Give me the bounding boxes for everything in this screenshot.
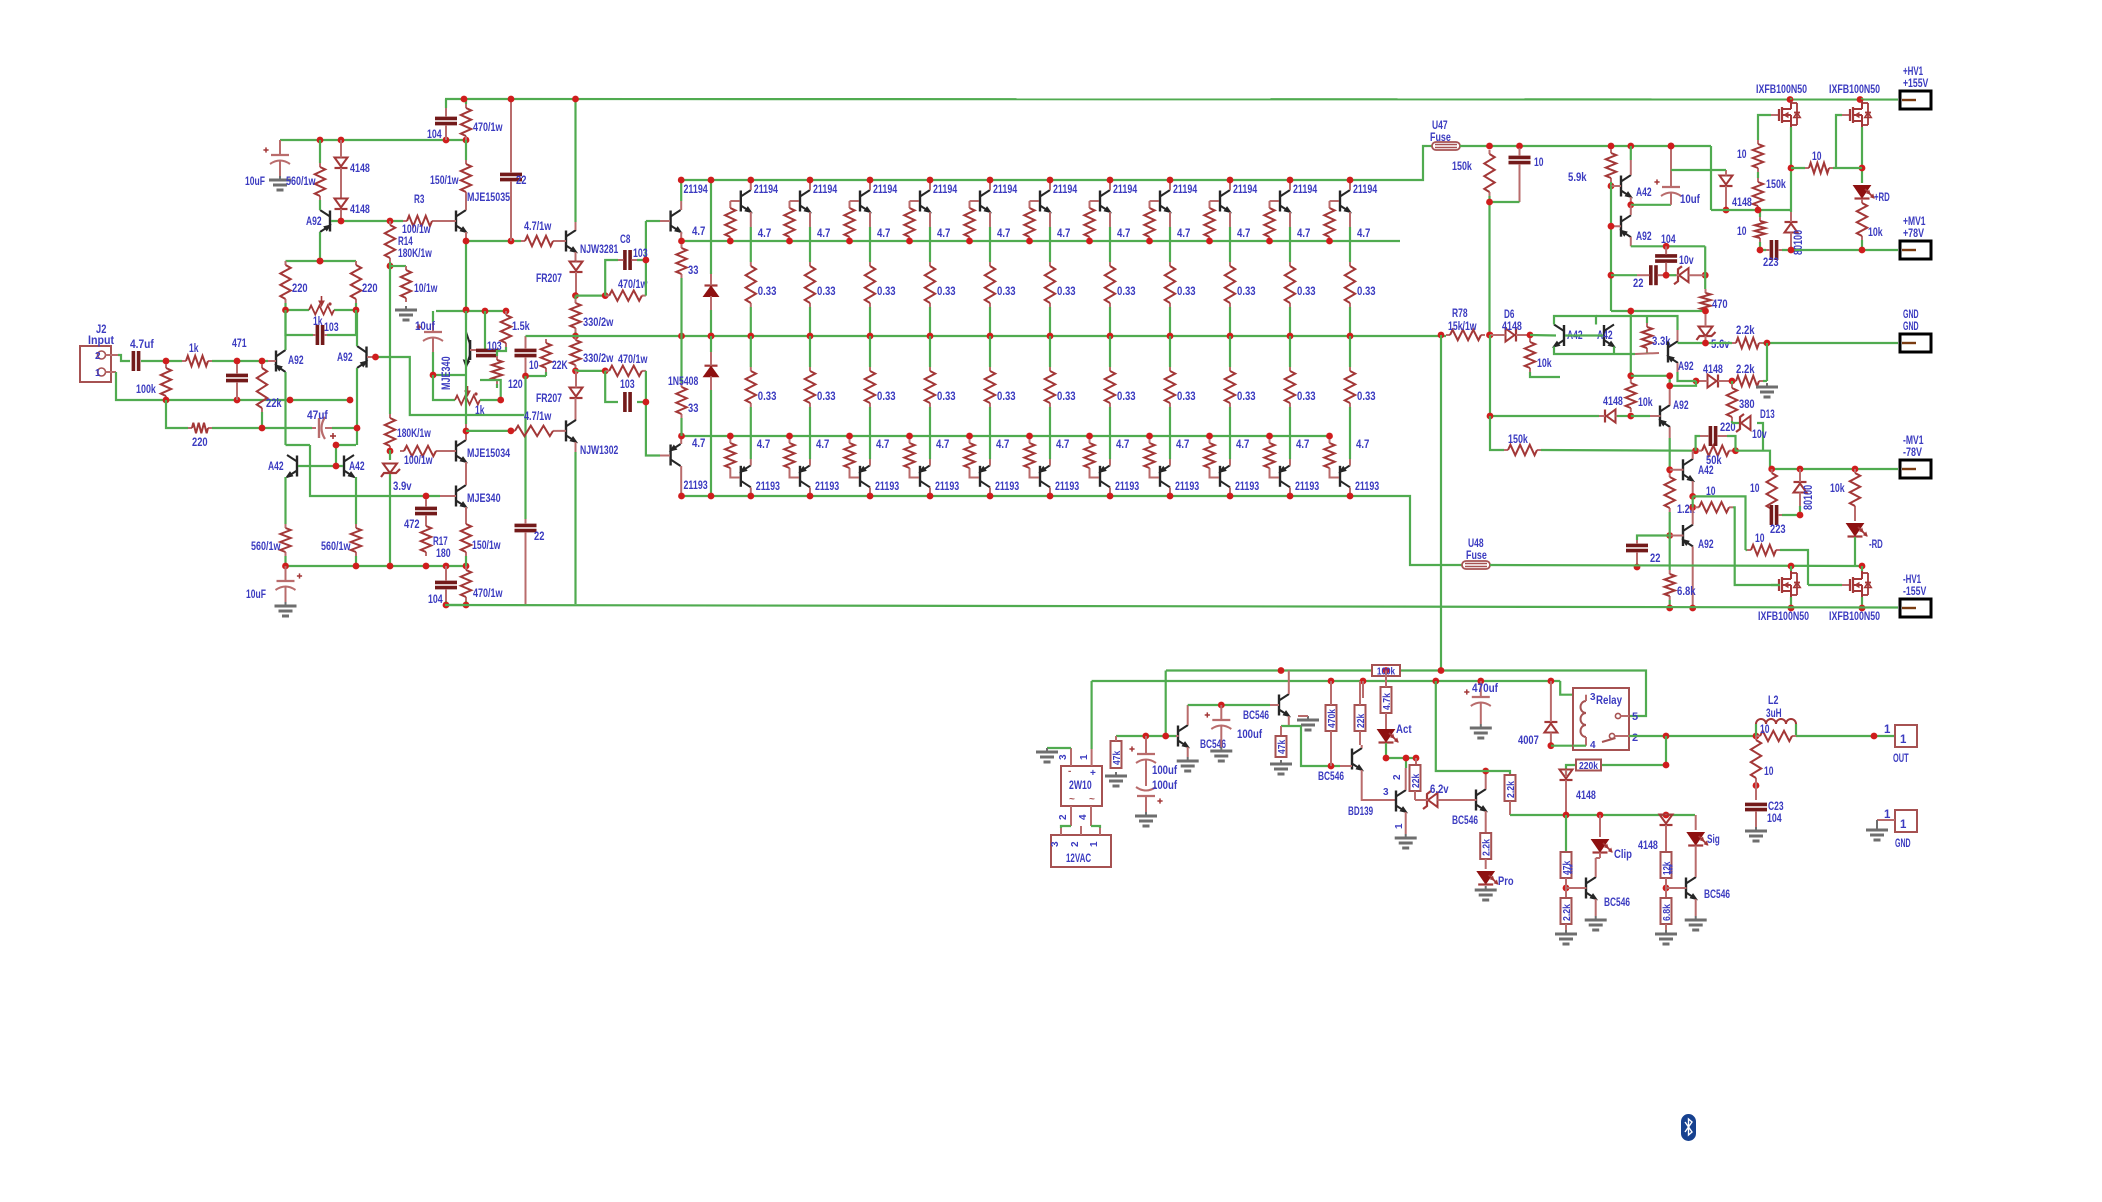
transistor 21194 21194 [1100, 184, 1138, 213]
svg-text:10: 10 [1760, 724, 1770, 736]
leads BC546 3 [1340, 745, 1397, 800]
polarized capacitor 10uF 10uF [246, 566, 302, 602]
wire relay pin4 bottom [1573, 745, 1586, 747]
node collector rail [1287, 177, 1294, 184]
resistor 330/2w 330/2w [570, 299, 613, 332]
resistor 4.7 [904, 439, 914, 472]
resistor 22k 22k [257, 364, 282, 412]
label 0.33 lower [937, 391, 956, 403]
wire 0.33 to collector [1109, 407, 1111, 459]
resistor 4.7/1w 4.7/1w [521, 221, 557, 246]
resistor 560/1w 560/1w [251, 524, 291, 556]
resistor 0.33 [865, 262, 875, 307]
lead 21193 [1169, 459, 1171, 496]
label 0.33 [1177, 286, 1196, 298]
wire A42 pair links [1554, 316, 1614, 354]
transistor A42 A42 [268, 455, 297, 478]
resistor 10 10 [1737, 140, 1763, 172]
svg-text:~: ~ [1069, 794, 1075, 805]
resistor 4.7 [725, 204, 735, 241]
transistor 21193 21193 [1039, 465, 1079, 493]
wire 470 bottom row [1611, 311, 1706, 376]
wire 4.7 base to bar [790, 200, 800, 202]
transistor A92 A92 [1620, 215, 1651, 243]
svg-text:12VAC: 12VAC [1066, 853, 1091, 865]
wire pot right [480, 399, 501, 401]
leads BC546 mid [1176, 705, 1188, 757]
resistor 2.2k 2.2k [1480, 833, 1492, 859]
leads sig led [1695, 815, 1697, 858]
node base bus lower [846, 433, 853, 440]
wire 104 top [446, 99, 466, 108]
node collector rail [1347, 177, 1354, 184]
resistor 1.2k [1665, 473, 1675, 512]
svg-text:Clip: Clip [1614, 849, 1632, 861]
node out terminal [1871, 733, 1878, 740]
bridge rectifier 2W10 [1058, 748, 1102, 826]
svg-text:1: 1 [1900, 819, 1907, 831]
capacitor 103 103 [476, 341, 502, 356]
svg-text:***: *** [1568, 864, 1579, 874]
wire 47uf to fb node [332, 427, 356, 429]
diode 1N4007 4007 [1518, 681, 1557, 747]
wire row 210 [1711, 210, 1791, 217]
wire mid to 0.33 lower [929, 336, 931, 367]
leads A92 [1611, 205, 1631, 246]
svg-text:0.33: 0.33 [1177, 391, 1196, 403]
resistor 12k 12k [1661, 852, 1680, 878]
svg-text:4.7: 4.7 [758, 228, 771, 240]
leads A92 gnd row [1635, 330, 1678, 372]
capacitor 104 104 [427, 108, 457, 141]
svg-text:4148: 4148 [1576, 790, 1596, 802]
node 4148 [1668, 143, 1730, 214]
wire 0.33 to collector [929, 407, 931, 459]
svg-text:10: 10 [1737, 149, 1747, 161]
svg-text:10uf: 10uf [1680, 194, 1700, 206]
resistor 100k 100k [136, 364, 171, 400]
svg-text:-RD: -RD [1869, 539, 1883, 551]
svg-text:A92: A92 [1673, 400, 1689, 412]
transistor BC546 BC546 [1586, 877, 1630, 909]
svg-text:-: - [1068, 766, 1071, 777]
label 0.33 lower [1057, 391, 1076, 403]
svg-text:0.33: 0.33 [1117, 391, 1136, 403]
svg-text:0.33: 0.33 [1297, 391, 1316, 403]
node base bus [1206, 238, 1213, 245]
LED Act Act [1379, 724, 1412, 743]
capacitor 220 220 [1700, 422, 1736, 446]
svg-text:150/1w: 150/1w [472, 540, 501, 552]
ground [1210, 747, 1232, 761]
svg-text:10k: 10k [1537, 358, 1552, 370]
svg-text:10: 10 [1534, 157, 1544, 169]
svg-text:2: 2 [1392, 774, 1403, 780]
node mid rail [1047, 333, 1054, 340]
transistor 21193 21193 [919, 465, 959, 493]
wire 0.33 to mid [1169, 307, 1171, 336]
node mid rail [867, 333, 874, 340]
wire mid to 0.33 lower [869, 336, 871, 367]
label 0.33 [817, 286, 836, 298]
wire mid output rail [526, 335, 1447, 337]
node [1663, 272, 1670, 279]
terminal -HV1 [1900, 574, 1931, 617]
node pot out [497, 397, 504, 404]
resistor 380 380 [1727, 384, 1755, 421]
wire cap to R 1k [141, 360, 182, 362]
node tail rail [282, 563, 469, 570]
resistor 0.33 [985, 367, 995, 407]
label 0.33 lower [758, 391, 777, 403]
node collector rail [1047, 177, 1054, 184]
svg-text:22: 22 [1633, 278, 1643, 290]
node 5.9k [1608, 183, 1615, 190]
wire 0.33 to collector [750, 407, 752, 459]
wire 22 hang [1637, 536, 1670, 541]
svg-text:A42: A42 [1636, 187, 1652, 199]
wire 4007 to relay [1551, 745, 1573, 747]
node A42 [333, 442, 430, 500]
node Q1 lower [678, 433, 685, 500]
polarized capacitor 10uF 10uF [245, 140, 290, 188]
svg-text:220: 220 [362, 283, 378, 295]
transistor A92 A92 [306, 210, 331, 232]
ground [1685, 916, 1707, 930]
lead 21193 [869, 459, 871, 496]
wire 1k to Q base [212, 360, 268, 362]
svg-text:OUT: OUT [1893, 753, 1909, 765]
svg-text:-155V: -155V [1903, 586, 1927, 598]
wire mid to 0.33 lower [1349, 336, 1351, 367]
svg-text:R78: R78 [1452, 308, 1468, 320]
svg-text:10v: 10v [1752, 429, 1767, 441]
wire diode to mid [710, 310, 712, 336]
node base bus lower [1326, 433, 1333, 440]
potentiometer 1k 1k [455, 386, 485, 417]
svg-text:104: 104 [1767, 813, 1782, 825]
resistor 10 10 [1747, 533, 1780, 555]
resistor 4.7/1w 4.7/1w [511, 411, 557, 436]
fuse U47 [1432, 142, 1460, 150]
svg-text:0.33: 0.33 [1117, 286, 1136, 298]
wire -MV1 row [1770, 468, 1898, 470]
wire to A42 pair [1530, 334, 1556, 337]
wire emitter [929, 227, 931, 262]
svg-text:22K: 22K [552, 360, 568, 372]
resistor 4.7 [1204, 204, 1214, 241]
label 0.33 [1117, 286, 1136, 298]
capacitor 103 103 [620, 379, 635, 412]
svg-text:470k: 470k [1326, 709, 1338, 728]
wire +HV rail [445, 98, 1898, 101]
svg-text:100/1w: 100/1w [402, 224, 431, 236]
svg-text:+: + [1090, 768, 1096, 779]
resistor 10k 10k [1857, 199, 1883, 240]
svg-text:4148: 4148 [350, 163, 370, 175]
wire C8 loop [605, 221, 646, 296]
svg-text:47uf: 47uf [307, 410, 328, 422]
node base [234, 358, 266, 365]
resistor 220k 220k [1576, 760, 1601, 772]
svg-text:471: 471 [232, 338, 247, 350]
wire gnd stub [1766, 343, 1768, 381]
node gate row lower [1788, 563, 1866, 570]
wire down to lower 22 cap [524, 376, 526, 519]
wire Q1 collector [680, 180, 682, 201]
capacitor 22 22 [1633, 265, 1666, 290]
transistor NJW3281 NJW3281 [566, 230, 619, 256]
lead 21193 [929, 459, 931, 496]
node mid rail [1167, 333, 1174, 340]
svg-text:21194: 21194 [813, 184, 838, 196]
node base bus lower [1266, 433, 1273, 440]
zener diode 5.6v 5.6v [1697, 314, 1731, 351]
transistor MJE15035 MJE15035 [456, 192, 511, 233]
wire 10 cap bottom [526, 372, 547, 376]
ground [1135, 812, 1157, 826]
zener diode 10v 10v [1674, 255, 1705, 284]
svg-text:180K/1w: 180K/1w [397, 428, 431, 440]
wire 4148 to 10k [1617, 415, 1631, 417]
wire mid to 0.33 lower [1229, 336, 1231, 367]
svg-text:2.2k: 2.2k [1736, 364, 1755, 376]
svg-text:3uH: 3uH [1766, 708, 1782, 720]
wire [576, 295, 606, 297]
lead 21194 [1109, 180, 1111, 227]
wire gate r down [1757, 172, 1759, 178]
label 0.33 lower [1297, 391, 1316, 403]
svg-text:0.33: 0.33 [1057, 391, 1076, 403]
svg-text:560/1w: 560/1w [251, 541, 281, 553]
wire MJE340 base [484, 311, 486, 350]
svg-text:10uF: 10uF [246, 589, 266, 601]
svg-text:470/1w: 470/1w [618, 354, 648, 366]
node +12 net [1328, 678, 1555, 685]
labels R78 [1448, 308, 1477, 333]
terminal GND out [1877, 809, 1917, 850]
transistor 21194 21194 [671, 184, 709, 233]
svg-text:80100: 80100 [1803, 485, 1815, 510]
wire 0.33 to mid [750, 307, 752, 336]
svg-text:0.33: 0.33 [877, 391, 896, 403]
svg-text:3: 3 [1590, 692, 1596, 703]
resistor 0.33 [1165, 367, 1175, 407]
wire mid to 0.33 lower [809, 336, 811, 367]
svg-text:0.33: 0.33 [997, 391, 1016, 403]
resistor 4.7 [1024, 439, 1034, 472]
svg-text:10: 10 [1812, 151, 1822, 163]
label 4.7 lower [1296, 439, 1309, 451]
svg-text:3: 3 [1058, 754, 1069, 760]
svg-text:BC546: BC546 [1704, 889, 1730, 901]
transistor A42 A42 [1597, 325, 1615, 348]
svg-text:103: 103 [324, 322, 339, 334]
labels R3 [402, 194, 431, 236]
resistor 33 33 [676, 244, 698, 278]
svg-text:A92: A92 [1698, 539, 1714, 551]
svg-text:U48: U48 [1468, 538, 1484, 550]
wire mid to 0.33 lower [989, 336, 991, 367]
wire 4.7 base to bar [1030, 200, 1040, 202]
leads 22k [1360, 681, 1363, 745]
svg-text:A92: A92 [1678, 361, 1694, 373]
label 4.7 lower [1116, 439, 1129, 451]
resistor 220 220 [351, 261, 378, 303]
lead 21193 [1109, 459, 1111, 496]
svg-text:+RD: +RD [1874, 192, 1890, 204]
transistor BC546 BC546 [1686, 877, 1730, 901]
node R14 bottom [387, 263, 394, 270]
svg-text:10: 10 [1750, 483, 1760, 495]
wire [284, 303, 286, 310]
node -HV rail [1788, 605, 1866, 612]
svg-text:470/1w: 470/1w [473, 588, 503, 600]
wire A92 ce [319, 200, 321, 261]
svg-text:22k: 22k [1355, 714, 1367, 728]
lead -RD [1854, 510, 1856, 521]
svg-text:10k: 10k [1830, 483, 1845, 495]
svg-text:0.33: 0.33 [1357, 391, 1376, 403]
svg-text:21194: 21194 [933, 184, 958, 196]
wire 10k to +MV [1861, 240, 1863, 250]
wire A92 emitter to 380 [1678, 372, 1697, 381]
wire emitter rail [286, 260, 357, 262]
resistor 10k 10k [1525, 338, 1552, 372]
wire 10k bottom [1530, 372, 1560, 377]
label 4.7 [758, 228, 771, 240]
node base bus [846, 238, 853, 245]
svg-text:4.7: 4.7 [1176, 439, 1189, 451]
lead 4.7 lower bend [1210, 472, 1220, 478]
svg-text:4148: 4148 [1732, 197, 1752, 209]
svg-text:330/2w: 330/2w [583, 353, 613, 365]
wire 0.33 to mid [1109, 307, 1111, 336]
lead 4.7 lower bend [1030, 472, 1040, 478]
wire 220 cap loop [1696, 436, 1736, 451]
node collector rail [747, 177, 754, 184]
svg-text:1N5408: 1N5408 [668, 376, 699, 388]
node fb [372, 354, 379, 361]
node base bus lower [1026, 433, 1033, 440]
svg-text:4148: 4148 [1638, 840, 1658, 852]
capacitor 103 103 [313, 322, 339, 345]
lead diode [340, 168, 342, 198]
wire A92 down column [1669, 438, 1671, 470]
wire 6.8k to rail [1669, 600, 1671, 608]
svg-text:470: 470 [1712, 299, 1728, 311]
svg-text:150k: 150k [1452, 161, 1472, 173]
svg-text:470/1w: 470/1w [473, 122, 503, 134]
svg-text:100k: 100k [136, 384, 156, 396]
polarized capacitor 10uf 10uf [415, 321, 443, 352]
resistor 470k 470k [1326, 705, 1338, 731]
lead diff bases [268, 357, 376, 361]
terminal +HV1 [1900, 66, 1931, 109]
wire pot right [334, 309, 356, 311]
node source [1788, 165, 1866, 172]
node collector rail [927, 177, 934, 184]
ground [1475, 886, 1497, 900]
svg-text:104: 104 [428, 594, 443, 606]
node [602, 292, 609, 299]
transistor 21194 21194 [800, 184, 838, 213]
wire 100k top net [1166, 671, 1646, 717]
transistor 21194 21194 [1040, 184, 1078, 213]
node -HV [1634, 564, 1697, 612]
lead 21193 [1229, 459, 1231, 496]
svg-text:BC546: BC546 [1318, 771, 1344, 783]
svg-text:21194: 21194 [754, 184, 779, 196]
wire 33 to bus lower [680, 418, 682, 436]
resistor R14 180K/1w [385, 221, 395, 262]
wire 220 to 47uf [212, 427, 312, 429]
node base bus [906, 238, 913, 245]
wire 1.5k to 120 [497, 347, 506, 356]
resistor 0.33 [985, 262, 995, 307]
lead 21194 [750, 180, 752, 227]
transistor 21193 21193 [1099, 465, 1139, 493]
svg-text:-HV1: -HV1 [1903, 574, 1922, 586]
svg-text:4.7: 4.7 [937, 228, 950, 240]
wire lower mosfet wiring [1771, 566, 1862, 608]
svg-text:22: 22 [516, 175, 526, 187]
svg-text:0.33: 0.33 [877, 286, 896, 298]
resistor 150k 150k [1504, 434, 1541, 455]
svg-text:U47: U47 [1432, 120, 1448, 132]
wire -HV rail [445, 605, 1898, 608]
resistor 0.33 [805, 262, 815, 307]
resistor 0.33 [1045, 262, 1055, 307]
svg-text:223: 223 [1763, 257, 1779, 269]
svg-text:220k: 220k [1579, 760, 1598, 772]
node base bus lower [906, 433, 913, 440]
resistor 4.7 [1144, 439, 1154, 472]
ground [1745, 827, 1767, 841]
svg-text:+HV1: +HV1 [1903, 66, 1924, 78]
svg-text:2.2k: 2.2k [1736, 325, 1755, 337]
node mid rail 330 [572, 333, 579, 340]
wire 10uf bottom [433, 352, 466, 375]
resistor 5.9k 5.9k [1568, 149, 1616, 184]
node mid rail left [678, 333, 714, 340]
svg-text:21194: 21194 [684, 184, 709, 196]
wire emitter [1349, 227, 1351, 262]
label R14 [398, 236, 432, 260]
labels C23 [1767, 801, 1784, 825]
wire A42e to 10uf [1631, 204, 1671, 206]
node base row [338, 218, 394, 225]
label 0.33 lower [817, 391, 836, 403]
leads 470k [1330, 681, 1332, 766]
node bottom rail [807, 493, 814, 500]
transistor 21194 21194 [741, 184, 779, 213]
node bottom rail [867, 493, 874, 500]
node C8 [643, 257, 650, 264]
svg-text:21194: 21194 [1053, 184, 1078, 196]
transistor 21193 21193 [670, 444, 708, 492]
svg-text:4.7: 4.7 [1056, 439, 1069, 451]
wire mid to 33 lower [680, 336, 682, 383]
node 330 lower [572, 368, 579, 375]
svg-text:10: 10 [1706, 486, 1716, 498]
node fuse rail [1486, 143, 1674, 150]
wire 4.7 base to bar [970, 200, 980, 202]
node 2.2k [1482, 768, 1489, 775]
label 0.33 lower [997, 391, 1016, 403]
label 0.33 lower [1357, 391, 1376, 403]
node collector rail [1107, 177, 1114, 184]
